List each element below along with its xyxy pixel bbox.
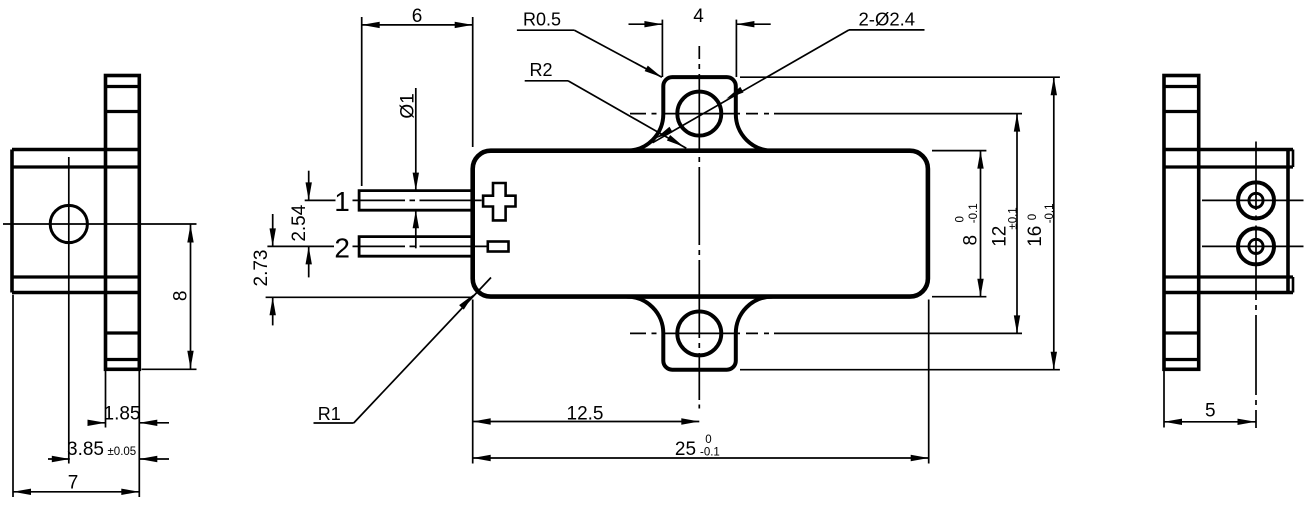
- svg-text:Ø1: Ø1: [398, 93, 419, 118]
- svg-text:1.85: 1.85: [104, 404, 141, 425]
- svg-text:12.5: 12.5: [567, 403, 604, 424]
- svg-text:-0.1: -0.1: [968, 203, 980, 223]
- svg-text:-0.1: -0.1: [700, 446, 720, 458]
- svg-text:1: 1: [334, 186, 350, 217]
- svg-text:-0.1: -0.1: [1044, 203, 1056, 223]
- svg-text:8: 8: [961, 235, 982, 246]
- svg-text:0: 0: [954, 216, 966, 222]
- svg-text:R1: R1: [318, 404, 341, 424]
- svg-text:±0.1: ±0.1: [1007, 207, 1019, 229]
- svg-text:5: 5: [1205, 401, 1216, 422]
- svg-text:8: 8: [170, 291, 191, 302]
- svg-text:2.73: 2.73: [251, 250, 272, 287]
- svg-text:2: 2: [334, 233, 350, 264]
- svg-text:R2: R2: [530, 60, 553, 80]
- svg-text:0: 0: [1027, 214, 1039, 220]
- svg-text:0: 0: [705, 434, 711, 446]
- svg-text:25: 25: [675, 439, 696, 460]
- svg-text:6: 6: [412, 6, 423, 27]
- svg-text:2.54: 2.54: [289, 204, 310, 241]
- svg-text:2-Ø2.4: 2-Ø2.4: [859, 9, 916, 30]
- svg-text:4: 4: [693, 6, 704, 27]
- svg-text:3.85: 3.85: [67, 439, 104, 460]
- svg-text:7: 7: [68, 472, 79, 493]
- svg-text:16: 16: [1025, 226, 1046, 247]
- svg-text:±0.05: ±0.05: [108, 446, 137, 458]
- svg-text:R0.5: R0.5: [523, 10, 561, 30]
